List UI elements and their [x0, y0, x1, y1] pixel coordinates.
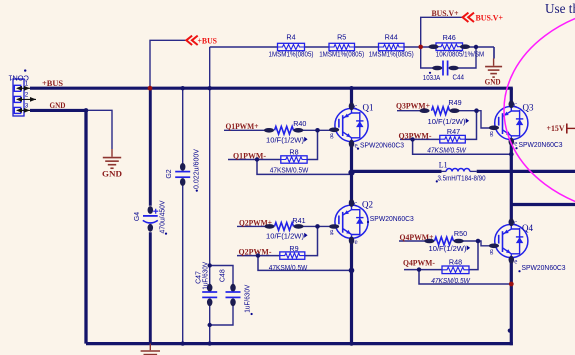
svg-text:Q2PWM-: Q2PWM-	[239, 246, 272, 256]
svg-text:SPW20N60C3: SPW20N60C3	[519, 140, 563, 149]
svg-text:SPW20N60C3: SPW20N60C3	[360, 141, 404, 150]
svg-text:BUS.V+: BUS.V+	[432, 9, 459, 18]
svg-text:1: 1	[25, 80, 29, 87]
wire Q1 gate drive	[224, 129, 330, 131]
transistor Q3	[489, 100, 528, 147]
svg-text:10/F(1/2W): 10/F(1/2W)	[266, 136, 304, 145]
svg-text:R47: R47	[447, 127, 460, 136]
pin 1 of CON1	[25, 80, 29, 87]
svg-text:10K/0805/1%/SM: 10K/0805/1%/SM	[436, 49, 485, 58]
junction +BUS/G2 leg	[181, 86, 185, 90]
svg-text:Q3: Q3	[523, 102, 534, 112]
svg-text:1MSM1%(0805): 1MSM1%(0805)	[369, 50, 414, 59]
svg-text:g: g	[490, 247, 494, 255]
junction +BUS/left leg	[349, 86, 353, 90]
capacitor C48	[219, 269, 240, 306]
svg-text:e: e	[355, 238, 358, 246]
svg-text:R49: R49	[448, 98, 461, 107]
resistor R5	[329, 33, 355, 51]
highlight ellipse	[504, 5, 575, 215]
svg-text:C47: C47	[195, 271, 202, 284]
junction +BUS/riser	[208, 86, 212, 90]
junction Q4 gate node	[476, 239, 481, 244]
ground symbol bottom left	[141, 344, 160, 355]
resistor R8	[281, 148, 307, 164]
connector CON1	[8, 69, 36, 116]
svg-text:g: g	[330, 228, 334, 236]
svg-text:C44: C44	[453, 73, 465, 82]
svg-text:R8: R8	[289, 148, 298, 157]
svg-text:3: 3	[25, 103, 29, 110]
pin 3 of CON1	[25, 103, 29, 110]
svg-text:47KSM/0.5W: 47KSM/0.5W	[427, 145, 467, 154]
wire C44 branch	[421, 47, 476, 68]
value 1MSM1%(0805) of R5	[319, 50, 364, 59]
value 3.5mH/T184-8/90 of L1	[436, 174, 486, 183]
junction R46 right	[474, 45, 478, 49]
wire Q4 gate drive	[399, 241, 495, 246]
value 47KSM/0.5W of R8	[270, 165, 309, 174]
junction C47/C48 bottom	[208, 323, 212, 327]
wire right-leg tap to right edge	[511, 203, 575, 206]
value 103JA of C44	[423, 73, 441, 82]
resistor R9	[280, 244, 305, 259]
value 47KSM/0.5W of R9	[269, 263, 308, 272]
value 10/F(1/2W) of R41	[266, 232, 308, 241]
value 10/F(1/2W) of R50	[429, 244, 471, 253]
value 47KSM/0.5W of R47	[427, 145, 467, 154]
svg-text:c: c	[354, 103, 357, 111]
svg-text:R46: R46	[443, 33, 456, 42]
value 10K/0805/1%/SM of R46	[436, 49, 485, 58]
svg-text:47KSM/0.5W: 47KSM/0.5W	[431, 276, 471, 285]
transistor Q2	[329, 199, 368, 246]
resistor R49	[419, 98, 461, 114]
wire bottom GND rail	[86, 342, 513, 345]
wire +BUS rail	[30, 87, 513, 90]
transistor Q1	[329, 102, 368, 149]
junction Q2 emitter tap	[349, 268, 355, 274]
svg-text:R9: R9	[289, 244, 298, 253]
resistor R50	[424, 229, 467, 245]
svg-text:1MSM1%(0805): 1MSM1%(0805)	[269, 50, 314, 59]
net label Q3PWM-	[399, 130, 432, 140]
net label Q4PWM+	[400, 232, 434, 242]
svg-text:GND: GND	[485, 77, 501, 87]
resistor R48	[442, 258, 469, 274]
svg-text:R50: R50	[454, 229, 467, 238]
svg-text:+15V: +15V	[547, 123, 566, 133]
svg-text:G2: G2	[166, 169, 173, 178]
capacitor C44	[429, 61, 464, 82]
value 10/F(1/2W) of R49	[428, 117, 470, 126]
resistor R46	[428, 33, 470, 50]
net label Q1PWM+	[226, 121, 259, 131]
svg-text:R40: R40	[293, 119, 306, 128]
junction bottom rail / G2 leg	[181, 341, 185, 345]
inductor L1	[439, 161, 470, 172]
junction sense chain / BUS.V+ (red)	[418, 45, 423, 50]
junction Q3 emitter tap	[509, 152, 514, 157]
resistor R4	[278, 33, 305, 51]
svg-text:GND: GND	[102, 169, 122, 179]
net label +BUS at CON1	[42, 78, 63, 88]
value SPW20N60C3 of Q4	[518, 223, 565, 272]
svg-text:+BUS: +BUS	[198, 35, 218, 45]
wire Q2PWM- / R9 net	[237, 226, 352, 270]
net label Q3PWM+	[396, 100, 430, 110]
svg-text:SPW20N60C3: SPW20N60C3	[522, 263, 566, 272]
value SPW20N60C3 of Q2	[362, 200, 414, 223]
svg-text:R4: R4	[286, 33, 295, 42]
svg-text:c: c	[514, 219, 517, 227]
svg-text:0.022u/600V: 0.022u/600V	[194, 149, 201, 189]
svg-text:C48: C48	[219, 269, 226, 282]
capacitor G2	[166, 163, 190, 186]
junction bottom rail / left leg	[349, 341, 353, 345]
net label GND at CON1	[50, 100, 66, 110]
svg-text:Q1: Q1	[363, 102, 374, 112]
note text top right	[545, 1, 575, 16]
wire BUS.V+ stub	[421, 17, 463, 47]
wire Q4PWM- / R48 net	[404, 241, 511, 284]
value 10/F(1/2W) of R40	[266, 136, 308, 145]
svg-text:10/F(1/2W): 10/F(1/2W)	[429, 244, 467, 253]
wire G2 leg	[182, 88, 184, 343]
svg-text:R41: R41	[292, 216, 305, 225]
wire left leg (Q1/Q2 half-bridge)	[350, 88, 353, 343]
svg-text:g: g	[330, 131, 334, 139]
value 1uF/630V of C48	[245, 284, 253, 315]
svg-text:Use th: Use th	[545, 1, 575, 16]
svg-text:47KSM/0.5W: 47KSM/0.5W	[269, 263, 308, 272]
svg-text:GND: GND	[50, 100, 66, 110]
junction Q4 emitter tap (red)	[509, 282, 514, 287]
junction Q2 gate node	[315, 224, 320, 229]
net label BUS.V+	[432, 9, 459, 18]
svg-text:g: g	[490, 129, 494, 137]
junction Q3PWM- node	[410, 137, 414, 141]
svg-text:Q3PWM-: Q3PWM-	[399, 130, 432, 140]
svg-text:10/F(1/2W): 10/F(1/2W)	[428, 117, 466, 126]
resistor R47	[440, 127, 466, 143]
wire Q3PWM- / R47 net	[400, 111, 511, 155]
junction Q4PWM- node	[417, 267, 421, 271]
svg-text:470u/450V: 470u/450V	[159, 200, 166, 233]
capacitor C47	[195, 271, 217, 306]
svg-text:+BUS: +BUS	[42, 78, 63, 88]
svg-text:c: c	[514, 101, 517, 109]
junction Q3 R49/R47 node	[474, 108, 479, 113]
svg-text:R48: R48	[449, 258, 462, 267]
wire CON1 gnd symbol branch	[86, 110, 112, 149]
svg-text:2: 2	[25, 92, 29, 99]
value 470u/450V of G4	[159, 200, 167, 235]
svg-text:L1: L1	[439, 161, 448, 170]
svg-text:3.5mH/T184-8/90: 3.5mH/T184-8/90	[438, 174, 486, 183]
junction Q1PWM- node	[255, 157, 259, 161]
svg-text:10/F(1/2W): 10/F(1/2W)	[266, 232, 304, 241]
junction right leg stub	[508, 329, 512, 333]
resistor R44	[379, 33, 405, 51]
off-page connector +BUS	[186, 35, 217, 45]
resistor R41	[264, 216, 305, 230]
svg-text:Q1PWM+: Q1PWM+	[226, 121, 259, 131]
wire Q1PWM- / R8 net	[228, 130, 352, 174]
value SPW20N60C3 of Q1	[357, 102, 404, 149]
wire C47 leg	[209, 88, 211, 343]
junction switch node left	[348, 170, 354, 176]
svg-text:1uF/630V: 1uF/630V	[245, 284, 252, 312]
svg-text:e: e	[514, 139, 517, 147]
wire riser to +BUS off-page	[150, 40, 186, 88]
value SPW20N60C3 of Q3	[515, 102, 562, 149]
wire G4 bus-cap leg	[149, 88, 152, 343]
net label Q1PWM-	[233, 150, 266, 160]
junction Q1 gate node	[315, 128, 320, 133]
svg-text:Q4: Q4	[522, 223, 533, 233]
wire C48 branch	[210, 266, 233, 326]
value 0.022u/600V of G2	[194, 149, 201, 192]
svg-text:Q2: Q2	[362, 200, 373, 210]
wire +BUS to sense-resistor chain riser	[209, 47, 211, 88]
wire CON1 GND to rail	[30, 110, 86, 343]
value 1MSM1%(0805) of R44	[369, 50, 414, 59]
transistor Q4	[489, 218, 528, 265]
wire switch-node / L1 rail	[352, 170, 575, 173]
svg-text:103JA: 103JA	[423, 73, 441, 82]
net label Q4PWM-	[403, 258, 435, 268]
off-page connector BUS.V+	[463, 13, 503, 23]
power symbol +15V	[547, 123, 575, 134]
net label Q2PWM+	[239, 217, 272, 227]
junction GND corner	[84, 108, 89, 113]
wire Q3 gate drive	[397, 111, 495, 128]
wire sense chain segments	[210, 47, 494, 59]
wire right leg (Q3/Q4 half-bridge)	[510, 88, 513, 345]
svg-text:1MSM1%(0805): 1MSM1%(0805)	[319, 50, 364, 59]
svg-text:R44: R44	[385, 33, 398, 42]
svg-text:BUS.V+: BUS.V+	[476, 13, 504, 23]
svg-text:SPW20N60C3: SPW20N60C3	[370, 214, 414, 223]
junction bottom rail / C47 leg	[208, 341, 212, 345]
wire Q2 gate drive	[237, 225, 330, 227]
value 1uF/630V of C47	[202, 261, 209, 289]
capacitor G4 electrolytic	[134, 206, 158, 232]
resistor R40	[264, 119, 306, 134]
svg-text:R5: R5	[337, 33, 346, 42]
svg-text:c: c	[354, 199, 357, 207]
junction Q2PWM- node	[256, 253, 260, 257]
ground symbol near CON1	[102, 149, 122, 179]
svg-text:G4: G4	[134, 212, 141, 221]
svg-text:Q4PWM-: Q4PWM-	[403, 258, 435, 268]
value 1MSM1%(0805) of R4	[269, 50, 314, 59]
junction C47/C48 top	[208, 263, 212, 267]
net label Q2PWM-	[239, 246, 272, 256]
svg-text:47KSM/0.5W: 47KSM/0.5W	[270, 165, 309, 174]
pin 2 of CON1	[25, 92, 29, 99]
ground symbol near R46	[485, 47, 503, 87]
value 47KSM/0.5W of R48	[431, 276, 471, 285]
svg-text:Q1PWM-: Q1PWM-	[233, 150, 266, 160]
svg-text:e: e	[514, 257, 517, 265]
junction +BUS/G4 leg (red)	[148, 86, 153, 91]
